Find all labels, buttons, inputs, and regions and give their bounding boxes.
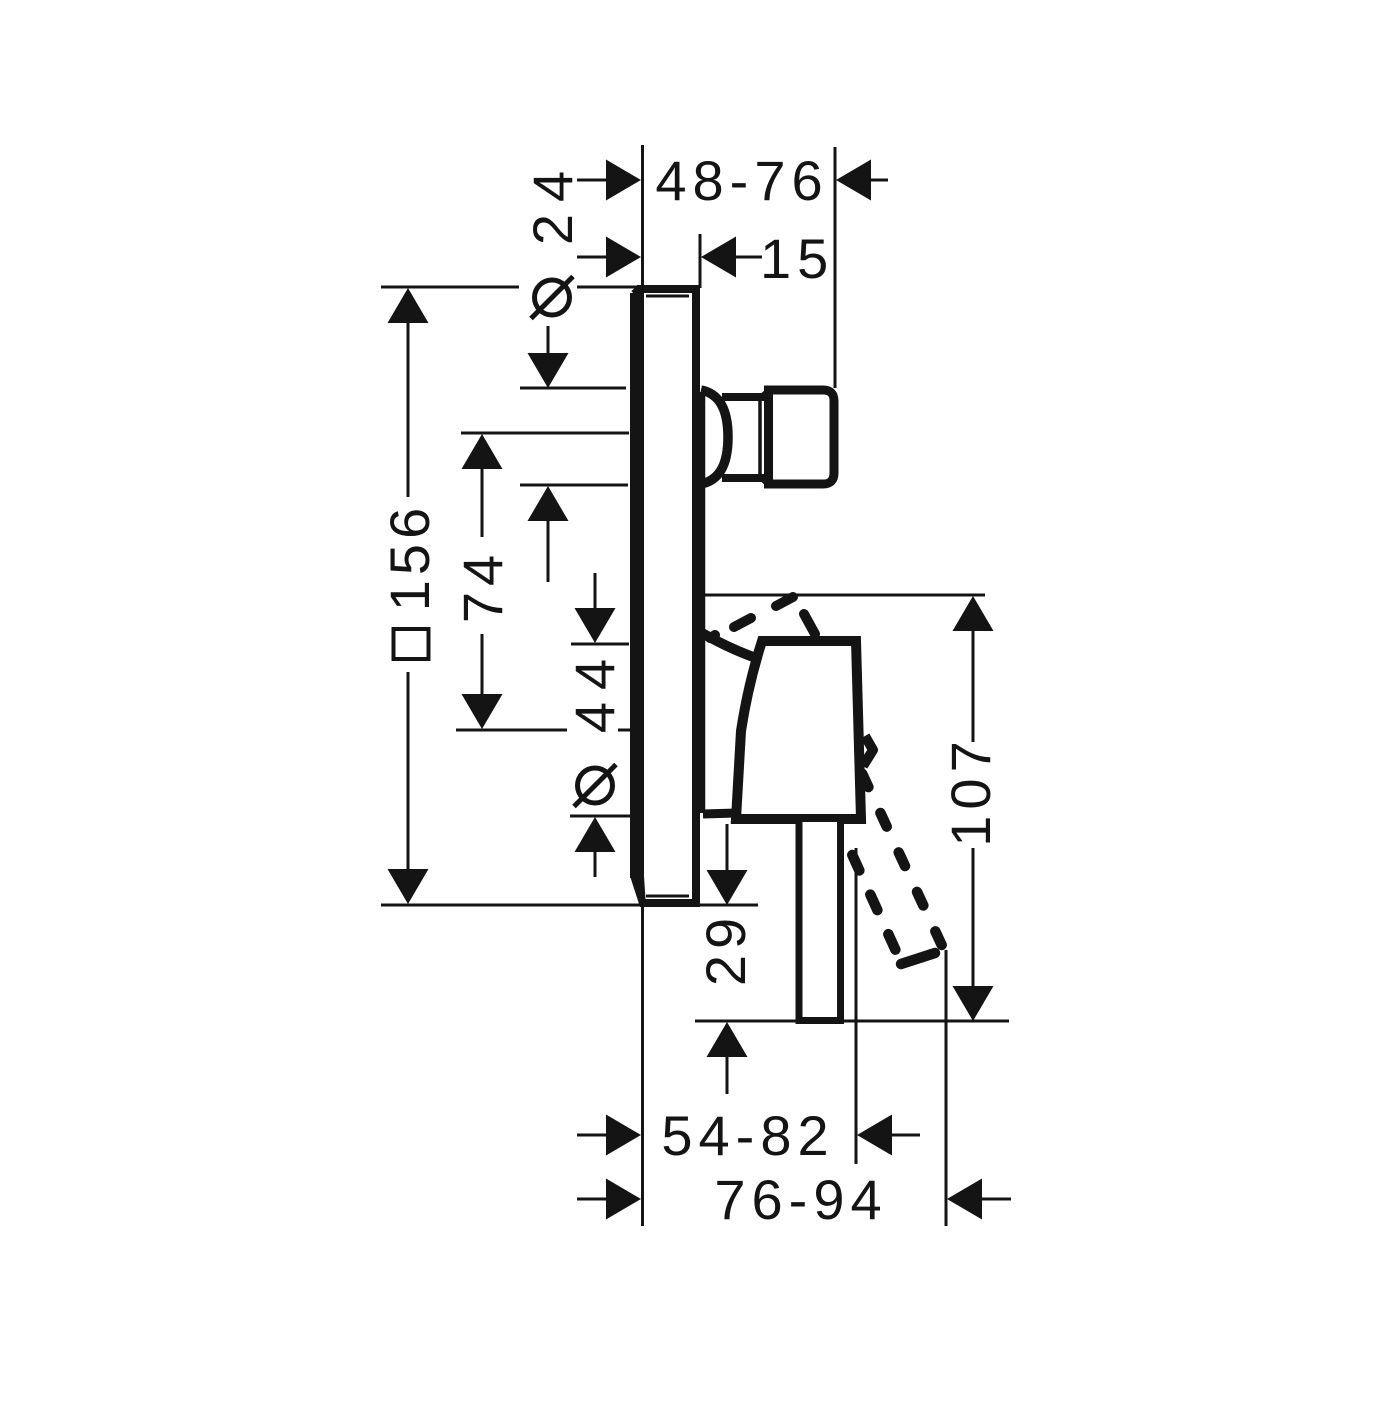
dimension 54-82 xyxy=(577,1104,920,1167)
svg-text:74: 74 xyxy=(451,549,514,623)
handle body xyxy=(736,641,861,819)
mixer body front edge xyxy=(700,392,706,813)
wire extension line lever position A (x=856) xyxy=(855,848,858,1164)
knob dome xyxy=(701,390,728,484)
lever tilted position dashed left edge xyxy=(852,855,901,962)
wire extension line plate bottom (y=905) xyxy=(381,904,758,907)
lever corner chevron xyxy=(863,736,873,766)
wire extension line handle axis (y=730) xyxy=(456,729,567,732)
dimension 107 xyxy=(939,596,1002,1021)
wire extension line plate front (x=700) xyxy=(699,234,702,288)
wire extension line knob end (x=835) xyxy=(834,147,837,388)
svg-text:76-94: 76-94 xyxy=(714,1168,887,1231)
wire extension line wall face bottom (x=642) xyxy=(641,903,644,1226)
dimension 48-76 xyxy=(577,149,888,212)
wire extension line wall face top (x=642) xyxy=(641,145,644,288)
dimension 15 xyxy=(577,227,834,290)
lever solid down position xyxy=(799,822,841,1021)
dimension diameter 24 xyxy=(521,159,584,582)
dimension square 156 xyxy=(378,288,441,904)
lever raised end cap xyxy=(804,614,815,634)
svg-text:156: 156 xyxy=(378,503,441,611)
lever tilted position dashed right edge xyxy=(862,774,944,951)
wire extension line knob bottom (y=485) xyxy=(520,484,628,487)
knob neck xyxy=(722,390,771,485)
dimension 76-94 xyxy=(577,1168,1011,1231)
wire extension line lever tip raised (y=595) xyxy=(703,594,985,597)
wire extension line handle top (y=644) xyxy=(571,643,629,646)
lever tilted end cap xyxy=(901,953,935,964)
wire extension line lever bottom (y=1021) xyxy=(695,1020,1009,1023)
wire extension line lever position B (x=946) xyxy=(945,950,948,1226)
dimension 29 xyxy=(694,824,757,1094)
svg-text:48-76: 48-76 xyxy=(655,149,828,212)
knob body xyxy=(769,390,835,484)
wire extension line handle bottom (y=816) xyxy=(570,815,630,818)
wire extension line knob top (y=388) xyxy=(520,387,626,390)
dimension diameter 44 xyxy=(563,573,626,877)
svg-text:54-82: 54-82 xyxy=(661,1104,834,1167)
svg-text:15: 15 xyxy=(760,227,834,290)
svg-text:44: 44 xyxy=(563,647,626,733)
svg-text:29: 29 xyxy=(694,912,757,986)
dimension 74 xyxy=(451,434,514,729)
wall plate escutcheon xyxy=(630,288,696,907)
svg-text:24: 24 xyxy=(521,159,584,245)
svg-text:107: 107 xyxy=(939,735,1002,846)
wire extension line plate top (y=287) xyxy=(381,286,519,289)
wire extension line knob axis (y=433) xyxy=(461,432,629,435)
lever raised position dashed xyxy=(710,635,715,638)
handle adapter cone xyxy=(702,633,762,814)
